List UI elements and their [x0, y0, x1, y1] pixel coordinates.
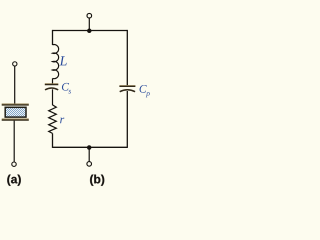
inductor L — [53, 45, 59, 79]
wire stub top — [88, 18, 90, 31]
junction node bottom — [87, 145, 92, 150]
capacitor Cp — [119, 86, 135, 92]
wire — [14, 66, 16, 103]
caption (a) — [7, 175, 20, 186]
wire left branch upper — [52, 30, 54, 45]
terminal T4 (circuit bottom) — [87, 162, 92, 167]
terminal T3 (circuit top) — [87, 13, 92, 18]
junction node top — [87, 29, 92, 34]
wire — [13, 121, 15, 162]
wire top — [53, 30, 128, 32]
terminal T2 (crystal bottom) — [12, 162, 16, 166]
wire right branch lower — [126, 91, 128, 148]
label Cp — [140, 85, 150, 97]
wire right branch upper — [126, 30, 128, 86]
wire — [52, 133, 54, 148]
crystal X1 bottom plate — [2, 119, 29, 120]
caption (b) — [90, 175, 104, 186]
resistor r — [49, 105, 57, 133]
crystal X1 top plate — [2, 104, 29, 105]
label Cs — [62, 83, 71, 94]
label r — [60, 118, 64, 124]
wire — [52, 89, 54, 105]
capacitor Cs — [45, 84, 59, 90]
wire — [52, 78, 54, 83]
crystal X1 body — [5, 107, 26, 117]
wire bottom — [53, 146, 128, 148]
label L — [59, 56, 66, 65]
terminal T1 (crystal top) — [13, 62, 17, 66]
wire stub bottom — [88, 147, 90, 161]
